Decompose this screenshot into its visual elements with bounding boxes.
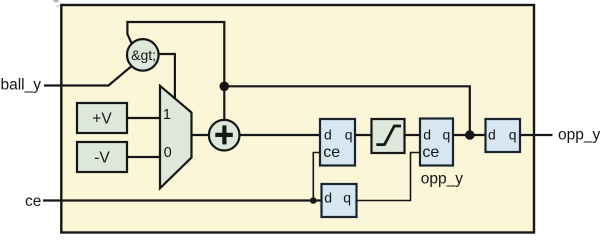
wire feedback horizontal: [224, 86, 469, 135]
svg-text:&gt;: &gt;: [131, 47, 156, 63]
wire saturator to register R2: [405, 134, 421, 136]
wire output opp_y: [520, 134, 553, 136]
svg-text:d: d: [488, 127, 496, 143]
svg-text:q: q: [345, 127, 353, 143]
constant +V: [77, 103, 127, 133]
wire comparator top link: [127, 34, 131, 44]
svg-text:ball_y: ball_y: [1, 76, 42, 93]
wire R2 to register R3: [453, 134, 486, 136]
register R4 d/q: [322, 184, 357, 217]
svg-text:-V: -V: [94, 150, 110, 167]
wire ball_y input: [44, 66, 132, 85]
wire ce to R1: [313, 153, 320, 201]
saturator U3: [372, 119, 405, 153]
svg-text:opp_y: opp_y: [558, 126, 600, 143]
wire -V to mux: [127, 156, 161, 158]
wire mux select: [159, 54, 175, 99]
adder U2: [209, 120, 240, 151]
wire R4 to R2 ce: [357, 153, 421, 201]
wire mux to adder: [192, 134, 210, 136]
wire comparator to top feedback: [127, 22, 224, 120]
register R2 d/q/ce opp_y: [420, 119, 463, 188]
constant -V: [77, 142, 127, 172]
svg-text:opp_y: opp_y: [421, 170, 463, 187]
cropped text remnant top-left: [54, 0, 59, 2]
register R1 d/q/ce: [320, 119, 355, 166]
wire +V to mux: [127, 117, 161, 119]
node C junction dot: [310, 197, 317, 204]
svg-text:d: d: [324, 127, 332, 143]
svg-text:ce: ce: [25, 193, 41, 210]
svg-text:q: q: [343, 190, 351, 206]
mux M1: [160, 86, 192, 189]
node B junction dot: [465, 130, 475, 140]
svg-text:q: q: [443, 127, 451, 143]
node A junction dot: [220, 82, 230, 92]
svg-text:d: d: [423, 127, 431, 143]
register R3 d/q: [486, 119, 521, 152]
svg-text:0: 0: [164, 145, 172, 161]
svg-text:ce: ce: [323, 144, 340, 161]
wire R1 to saturator: [355, 134, 372, 136]
subsystem boundary box: [61, 5, 534, 233]
comparator U1 &gt;: [127, 39, 159, 71]
wire ce input: [43, 199, 322, 201]
svg-text:ce: ce: [422, 144, 439, 161]
wire adder to register R1: [240, 134, 321, 136]
svg-text:+V: +V: [92, 111, 112, 128]
svg-text:1: 1: [163, 107, 171, 123]
svg-text:d: d: [324, 190, 332, 206]
svg-text:q: q: [509, 127, 517, 143]
